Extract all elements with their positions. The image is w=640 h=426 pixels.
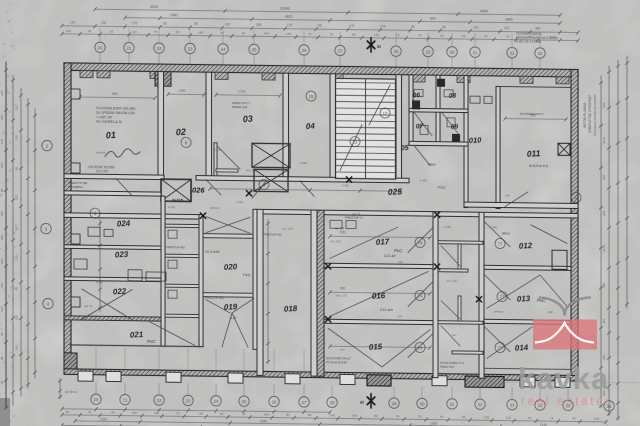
left dimension col 4 <box>27 98 29 388</box>
svg-text:110: 110 <box>132 30 137 34</box>
svg-text:95: 95 <box>411 25 415 29</box>
door swings bath col <box>441 246 460 266</box>
svg-text:95: 95 <box>0 356 4 360</box>
cells horizontal divider <box>409 108 468 112</box>
svg-text:22: 22 <box>157 398 162 403</box>
svg-text:PLOMBOU: PLOMBOU <box>68 185 84 189</box>
door mark X <box>434 212 439 217</box>
left dimension col 5 <box>34 108 36 378</box>
svg-text:03: 03 <box>242 114 253 125</box>
svg-text:PvC: PvC <box>147 339 156 344</box>
door swing into 011 <box>505 192 528 207</box>
svg-text:60: 60 <box>66 410 70 414</box>
svg-text:PO VOHREL A-32: PO VOHREL A-32 <box>96 120 122 124</box>
right dimension col 3 <box>617 60 619 420</box>
svg-text:450: 450 <box>505 194 510 198</box>
svg-text:013: 013 <box>517 294 531 304</box>
svg-text:240: 240 <box>0 163 4 168</box>
door mark X <box>246 191 251 196</box>
svg-text:016: 016 <box>372 291 386 301</box>
fixtures room 017 <box>330 220 342 228</box>
svg-text:01: 01 <box>105 130 116 141</box>
svg-text:305: 305 <box>0 211 4 216</box>
svg-text:PO DVA DVOM: PO DVA DVOM <box>326 360 347 364</box>
bottom grid bubbles row <box>91 394 101 405</box>
left dimension col 1 (dark scan border) <box>5 62 7 408</box>
svg-text:Riesl: Riesl <box>428 163 436 167</box>
detail ref circle <box>571 192 581 202</box>
svg-text:prestup: prestup <box>493 309 504 313</box>
svg-text:140: 140 <box>15 345 19 350</box>
svg-text:305: 305 <box>0 259 4 264</box>
svg-text:590: 590 <box>340 286 346 290</box>
svg-text:010: 010 <box>469 135 483 145</box>
svg-text:75: 75 <box>176 411 180 415</box>
inner dim corridor <box>210 189 400 191</box>
closet room 012 <box>552 250 567 269</box>
inner dim rooms 017/016 <box>330 236 430 237</box>
svg-text:220: 220 <box>15 315 19 320</box>
crossed window box room 011 <box>558 143 570 155</box>
svg-text:xI: xI <box>360 400 364 405</box>
detail ref circle <box>306 91 316 101</box>
right dimension col 1 <box>600 76 602 408</box>
cross in room 022 <box>82 289 132 320</box>
svg-text:77: 77 <box>498 241 503 246</box>
diagonal room 014 <box>487 326 532 359</box>
svg-text:260: 260 <box>602 174 606 179</box>
svg-text:nov. 120: nov. 120 <box>282 227 293 231</box>
section mark bottom <box>367 397 374 404</box>
door mark X <box>476 297 481 302</box>
svg-text:55: 55 <box>440 415 444 419</box>
svg-text:175: 175 <box>287 23 293 27</box>
svg-text:60: 60 <box>462 34 466 38</box>
left dimension col 3 <box>20 88 22 396</box>
inner dim room 02 <box>168 93 204 95</box>
wall 022|021 (hatched) <box>64 316 164 321</box>
detail ref circle <box>259 179 269 189</box>
fixtures cells <box>414 89 423 96</box>
mid column wall left (x161) <box>161 196 165 346</box>
svg-text:4200: 4200 <box>150 5 158 9</box>
bath col inner wall <box>458 244 461 269</box>
svg-text:PvC: PvC <box>438 185 446 190</box>
svg-text:lt 400: lt 400 <box>342 183 349 187</box>
svg-text:prestup: prestup <box>95 150 106 154</box>
svg-text:017: 017 <box>376 237 390 247</box>
svg-text:90: 90 <box>572 416 576 420</box>
detail ref circle <box>497 291 507 301</box>
svg-text:220: 220 <box>15 255 19 260</box>
diagonals in room 019 <box>206 300 230 313</box>
svg-text:60: 60 <box>88 29 92 33</box>
svg-text:175: 175 <box>380 24 386 28</box>
svg-text:90: 90 <box>220 412 224 416</box>
svg-text:22: 22 <box>157 46 162 51</box>
svg-text:450: 450 <box>548 310 553 314</box>
svg-text:120: 120 <box>0 139 4 144</box>
bottom rooms top wall (018,017,012 cols) <box>257 209 578 218</box>
svg-text:95: 95 <box>318 24 322 28</box>
svg-text:021: 021 <box>130 330 144 340</box>
svg-text:120: 120 <box>506 416 511 420</box>
left grid bubble 3 <box>41 223 51 234</box>
svg-text:HR DVERE: HR DVERE <box>205 250 220 254</box>
door swing room 012 <box>531 225 567 243</box>
svg-text:95: 95 <box>442 25 446 29</box>
svg-text:lt 400: lt 400 <box>300 161 307 165</box>
svg-text:1160: 1160 <box>100 417 107 421</box>
wall 010|011 <box>496 86 500 208</box>
room 011 top inner line <box>500 86 571 89</box>
svg-text:a=5,5-w 0,9: a=5,5-w 0,9 <box>529 164 548 168</box>
inner dim room 011 <box>505 118 566 121</box>
wall 04|stair <box>330 74 336 182</box>
svg-text:08: 08 <box>449 92 457 99</box>
wall 02|03 <box>206 72 212 180</box>
watermark logo red square <box>533 320 597 350</box>
svg-text:175: 175 <box>349 24 355 28</box>
svg-text:380: 380 <box>535 26 541 30</box>
svg-text:450: 450 <box>398 260 403 264</box>
svg-text:nov. 120: nov. 120 <box>246 168 257 172</box>
svg-text:27: 27 <box>338 48 343 53</box>
svg-text:75: 75 <box>88 410 92 414</box>
svg-text:4820: 4820 <box>285 15 293 19</box>
svg-text:28: 28 <box>330 400 335 405</box>
svg-text:020: 020 <box>224 262 238 272</box>
right dimension col 4 <box>626 56 628 308</box>
svg-text:60: 60 <box>396 414 400 418</box>
inner vertical dim 018 <box>267 219 269 363</box>
svg-text:CO-4m: CO-4m <box>380 307 394 312</box>
bottom wall dark block 1 <box>367 375 391 386</box>
svg-text:09: 09 <box>451 123 459 130</box>
detail ref circle <box>380 108 390 118</box>
mid cells dividers <box>165 224 199 227</box>
svg-text:140: 140 <box>330 413 335 417</box>
svg-text:90: 90 <box>308 413 312 417</box>
outer wall right <box>571 69 578 375</box>
svg-text:lt 400: lt 400 <box>420 178 427 182</box>
svg-text:b-3: b-3 <box>230 315 237 320</box>
svg-text:PO CELEJ DLZKE NA STROP: PO CELEJ DLZKE NA STROP <box>593 95 597 136</box>
svg-text:30: 30 <box>450 50 455 55</box>
svg-text:260: 260 <box>602 210 606 215</box>
staircase U1 <box>336 78 396 179</box>
svg-text:012: 012 <box>519 241 533 251</box>
svg-text:PvC: PvC <box>243 272 251 277</box>
svg-text:55: 55 <box>176 30 180 34</box>
svg-text:32: 32 <box>510 50 515 55</box>
svg-text:vyk 75: vyk 75 <box>84 304 93 308</box>
svg-text:75: 75 <box>308 32 312 36</box>
dark shaft in cell 07 <box>412 100 420 109</box>
svg-text:05: 05 <box>401 145 409 152</box>
svg-text:95: 95 <box>163 22 167 26</box>
fixtures room 010 <box>470 96 480 103</box>
svg-text:690: 690 <box>430 17 436 21</box>
svg-text:pvc: pvc <box>339 347 345 351</box>
block 017 right wall <box>433 212 438 378</box>
inner floor line room 014 <box>484 368 571 369</box>
cells divider vertical <box>436 75 440 145</box>
svg-text:175: 175 <box>132 21 138 25</box>
svg-text:95: 95 <box>0 380 4 384</box>
diagonal room 016 <box>330 270 428 317</box>
svg-text:014: 014 <box>515 343 529 353</box>
svg-text:85: 85 <box>15 227 19 231</box>
svg-text:140: 140 <box>264 412 269 416</box>
svg-text:140: 140 <box>110 410 115 414</box>
dark block near 09 <box>452 134 460 142</box>
svg-text:260: 260 <box>602 354 606 359</box>
diagonal room 017 <box>330 226 398 259</box>
door swing room 014 <box>484 326 510 351</box>
svg-text:240: 240 <box>0 91 4 96</box>
bath col dividers <box>438 241 483 245</box>
svg-text:55: 55 <box>352 33 356 37</box>
room 021 south line <box>70 345 203 347</box>
svg-text:KOMPLETNE VYROVNAT: KOMPLETNE VYROVNAT <box>588 95 592 133</box>
svg-text:nov. 120: nov. 120 <box>446 279 457 283</box>
svg-text:4400: 4400 <box>480 9 488 13</box>
svg-text:lt 400: lt 400 <box>236 200 243 204</box>
svg-text:75: 75 <box>484 34 488 38</box>
left wall chimney blocks <box>71 89 80 99</box>
svg-text:25: 25 <box>242 399 247 404</box>
svg-text:305: 305 <box>0 115 4 120</box>
door swing room 013 <box>484 274 510 299</box>
detail ref circle <box>415 237 425 247</box>
diagonal room 015 V <box>328 328 382 367</box>
bottom dimension line 1 <box>62 409 330 412</box>
detail ref circle <box>495 238 505 248</box>
svg-text:85: 85 <box>15 167 19 171</box>
door mark X <box>325 317 330 322</box>
svg-text:140: 140 <box>132 411 137 415</box>
fixture room 023 <box>74 259 87 269</box>
svg-text:20: 20 <box>94 397 99 402</box>
svg-text:CO-4c: CO-4c <box>384 253 396 258</box>
svg-text:2570: 2570 <box>602 245 606 252</box>
svg-text:31: 31 <box>473 50 478 55</box>
svg-text:PRESTUP: PRESTUP <box>440 365 454 369</box>
svg-text:250: 250 <box>256 23 262 27</box>
mid column wall right (x199) <box>199 215 203 347</box>
svg-text:025: 025 <box>387 186 402 197</box>
svg-text:22: 22 <box>353 139 358 144</box>
svg-text:lt 400: lt 400 <box>214 148 221 152</box>
svg-text:prestup: prestup <box>209 206 220 210</box>
svg-text:25: 25 <box>252 47 257 52</box>
fixtures mid cells <box>168 230 177 238</box>
svg-text:140: 140 <box>264 31 269 35</box>
svg-text:75: 75 <box>396 33 400 37</box>
svg-text:02: 02 <box>175 127 186 138</box>
svg-text:21: 21 <box>127 45 132 50</box>
diagonal in 021 <box>150 322 195 346</box>
svg-text:lt 400: lt 400 <box>96 280 103 284</box>
svg-text:590: 590 <box>340 230 346 234</box>
left wall bottom corner block <box>64 353 77 369</box>
wall 012|013 <box>484 265 571 270</box>
svg-text:92 80 62: 92 80 62 <box>65 390 77 394</box>
svg-text:75: 75 <box>550 416 554 420</box>
svg-text:26: 26 <box>272 399 277 404</box>
door mark X <box>325 264 330 269</box>
svg-text:180: 180 <box>602 282 606 287</box>
svg-text:NO PRESDUP LT: NO PRESDUP LT <box>520 112 545 116</box>
svg-text:PRESTUP LT: PRESTUP LT <box>345 215 364 219</box>
svg-text:04: 04 <box>306 121 316 131</box>
svg-text:24: 24 <box>214 399 219 404</box>
left grid bubble 4 <box>43 298 53 309</box>
svg-text:180: 180 <box>602 102 606 107</box>
svg-text:95: 95 <box>0 188 4 192</box>
svg-text:015: 015 <box>369 342 383 352</box>
left scan edge noise band <box>0 0 13 426</box>
bottom-left dark scan corner <box>0 398 10 426</box>
wall x253 (020 right) <box>253 209 257 349</box>
svg-text:74: 74 <box>418 240 423 245</box>
row2 north wall (024 top) <box>64 213 203 219</box>
bottom wall piers <box>78 371 93 381</box>
fixture boxes room 022 <box>128 270 142 281</box>
svg-text:75: 75 <box>506 35 510 39</box>
svg-text:75: 75 <box>242 412 246 416</box>
block 017 left wall <box>317 210 324 376</box>
wall 023|022 <box>64 277 164 282</box>
svg-text:lt 400: lt 400 <box>490 225 497 229</box>
svg-text:21: 21 <box>123 397 128 402</box>
door swings top cells <box>414 112 432 135</box>
dark shaft in cell 06 <box>437 79 445 87</box>
svg-text:xI: xI <box>377 44 381 49</box>
svg-text:305: 305 <box>0 235 4 240</box>
svg-text:PRESTUP 400: PRESTUP 400 <box>166 245 185 249</box>
left dimension col 2 <box>12 75 14 405</box>
inner dim room 03 <box>216 94 280 97</box>
cells bottom wall <box>409 141 468 146</box>
svg-text:140: 140 <box>15 135 19 140</box>
svg-text:77: 77 <box>500 294 505 299</box>
top dimension line 3 <box>62 26 578 33</box>
svg-text:140: 140 <box>374 33 379 37</box>
cross in room above 020 <box>206 217 250 234</box>
svg-text:95: 95 <box>0 332 4 336</box>
wall stair|05 <box>396 75 402 183</box>
svg-text:250: 250 <box>101 21 107 25</box>
top dimension line 4 <box>62 34 578 41</box>
detail ref circle <box>495 342 505 352</box>
svg-text:120: 120 <box>70 20 76 24</box>
svg-text:28: 28 <box>394 49 399 54</box>
shaft boxes between 02|03 <box>252 143 290 167</box>
diagonal room 013 <box>487 274 540 309</box>
svg-text:120: 120 <box>473 26 479 30</box>
svg-text:60: 60 <box>528 416 532 420</box>
wall 01|02 <box>158 72 164 180</box>
svg-text:140: 140 <box>352 414 357 418</box>
door swings block 017/016/015 <box>408 227 433 252</box>
wall 05|cells <box>409 75 413 145</box>
detail ref circle <box>415 342 425 352</box>
svg-text:1740: 1740 <box>238 90 246 94</box>
svg-text:2840: 2840 <box>260 419 267 423</box>
room 018 right wall <box>311 210 317 376</box>
svg-text:PRESTUP 400: PRESTUP 400 <box>263 232 282 236</box>
svg-text:690: 690 <box>112 92 118 96</box>
svg-text:55: 55 <box>418 414 422 418</box>
svg-text:BETON PLOMBA: BETON PLOMBA <box>583 102 587 128</box>
svg-text:23: 23 <box>188 46 193 51</box>
corridor north wall mid <box>196 176 409 183</box>
fixtures room 024 <box>88 227 100 236</box>
svg-text:410: 410 <box>225 22 231 26</box>
door mark X <box>200 213 205 218</box>
door mark X <box>434 264 439 269</box>
svg-text:110: 110 <box>66 29 71 33</box>
svg-text:20: 20 <box>98 45 103 50</box>
svg-text:vyk 75: vyk 75 <box>352 212 361 216</box>
wall 013|014 <box>484 319 571 324</box>
svg-text:75: 75 <box>154 30 158 34</box>
svg-text:pvc: pvc <box>451 333 457 337</box>
svg-text:3×115: 3×115 <box>172 197 184 202</box>
svg-text:85: 85 <box>15 287 19 291</box>
svg-text:6 40× 24 ×1 KLIN: 6 40× 24 ×1 KLIN <box>516 40 542 44</box>
outer wall bottom <box>64 369 578 381</box>
inner dim room 01 <box>80 96 155 99</box>
svg-text:120: 120 <box>484 415 489 419</box>
svg-text:11600: 11600 <box>280 7 290 11</box>
top dimension line 1 <box>95 9 560 15</box>
svg-text:1980: 1980 <box>430 422 437 426</box>
svg-text:1890: 1890 <box>505 18 513 22</box>
svg-text:29: 29 <box>392 401 397 406</box>
svg-text:415: 415 <box>0 283 4 288</box>
svg-text:1580: 1580 <box>170 13 178 17</box>
bottom dimension line 3 <box>75 421 606 426</box>
svg-text:kavka: kavka <box>518 361 609 396</box>
svg-text:220: 220 <box>15 105 19 110</box>
svg-text:pvc: pvc <box>397 314 403 318</box>
svg-text:90: 90 <box>286 413 290 417</box>
watermark rule line <box>500 382 640 384</box>
wall 016|015 <box>324 319 433 324</box>
svg-text:60: 60 <box>242 31 246 35</box>
svg-text:140: 140 <box>154 411 159 415</box>
svg-text:90: 90 <box>374 414 378 418</box>
elevator shaft 026 <box>161 179 191 201</box>
svg-text:12: 12 <box>383 111 388 116</box>
svg-text:024: 024 <box>117 219 131 229</box>
bottom dimension line 4 <box>62 425 340 426</box>
svg-text:77: 77 <box>498 345 503 350</box>
svg-text:lt 400: lt 400 <box>168 205 175 209</box>
svg-text:1490: 1490 <box>178 89 186 93</box>
svg-text:27: 27 <box>302 400 307 405</box>
svg-text:55: 55 <box>440 34 444 38</box>
compartment below room 03 <box>214 143 217 176</box>
svg-text:VO CKO: VO CKO <box>96 169 109 173</box>
bottom dimension line 2 <box>62 415 606 422</box>
svg-text:30: 30 <box>420 401 425 406</box>
room 020 box walls <box>203 234 256 239</box>
svg-text:90: 90 <box>462 415 466 419</box>
